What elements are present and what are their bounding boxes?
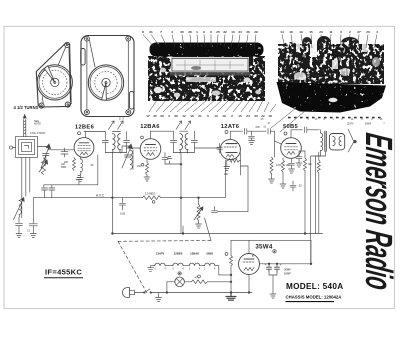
svg-text:9: 9 <box>203 30 205 34</box>
dial cord diagram 2 hub <box>102 78 110 86</box>
svg-text:150: 150 <box>137 165 142 168</box>
svg-text:35: 35 <box>153 114 157 118</box>
switch S1 <box>144 292 146 294</box>
B- bus <box>112 233 322 235</box>
svg-text:470K: 470K <box>276 164 282 167</box>
photo A mid clutter <box>170 72 250 76</box>
photo A bottom leader lines <box>149 100 276 112</box>
ground (V4 cathode) <box>280 184 286 188</box>
dial cord diagram 2 drum <box>88 65 123 100</box>
resistor R12 <box>192 280 208 284</box>
resistor (V4 grid) R8 <box>274 141 276 157</box>
IF transformer T1 <box>84 131 105 133</box>
svg-text:0.05: 0.05 <box>120 212 126 216</box>
tube V5 35W4 <box>239 254 260 275</box>
wire: osc coil to gang <box>122 146 130 153</box>
svg-text:IF=455KC: IF=455KC <box>45 267 82 276</box>
photo A bottom callout numbers <box>146 114 272 118</box>
photo A top callout numbers <box>142 30 258 34</box>
B+ output line <box>260 263 311 265</box>
ground (V2 cathode) <box>144 177 150 181</box>
svg-text:14: 14 <box>280 30 284 34</box>
svg-text:4: 4 <box>376 30 378 34</box>
photo A light band <box>171 57 249 73</box>
pilot lamp circuit <box>167 282 175 293</box>
svg-text:35W4: 35W4 <box>365 123 372 126</box>
resistor (feedback) R10 <box>304 151 306 158</box>
tube V2 12BA6 <box>140 139 161 160</box>
grid cap C2 <box>61 148 68 157</box>
svg-text:10: 10 <box>231 30 235 34</box>
chassis photo B (rear view) <box>277 36 387 113</box>
V1 cathode parts <box>80 157 82 159</box>
svg-text:15: 15 <box>309 30 313 34</box>
svg-text:50MF: 50MF <box>284 271 291 275</box>
photo A dial window <box>172 59 248 72</box>
svg-text:NOTE: NOTE <box>34 123 41 126</box>
svg-text:20: 20 <box>160 114 164 118</box>
wire: V4 plate to output <box>291 127 319 138</box>
cap .02 (output) <box>290 181 296 191</box>
chassis photo A (top view) <box>148 43 265 102</box>
photo A chassis highlights <box>154 87 162 93</box>
V3 grid cap <box>217 144 223 154</box>
screen supply box wires <box>44 155 98 187</box>
svg-text:25: 25 <box>216 30 220 34</box>
svg-text:26: 26 <box>246 30 250 34</box>
AVC bus <box>33 197 142 199</box>
svg-text:21: 21 <box>198 114 202 118</box>
svg-text:12BE6: 12BE6 <box>174 252 183 256</box>
ground (screen box) <box>76 176 82 185</box>
tube V3 12AT6 <box>220 139 240 159</box>
svg-text:2: 2 <box>349 30 351 34</box>
svg-text:31: 31 <box>149 30 153 34</box>
svg-text:12K: 12K <box>308 163 313 166</box>
svg-text:+: + <box>280 263 282 267</box>
T1 trimmer arrows <box>109 121 115 130</box>
svg-text:20: 20 <box>366 30 370 34</box>
ground (osc coil) <box>16 234 22 238</box>
tuning gang section 2 <box>122 146 132 169</box>
cap to ground at V3 plate <box>249 131 255 144</box>
AVC bypass cap C7 <box>120 198 126 210</box>
ground (V4 grid return) <box>269 179 275 183</box>
ground (left branch) <box>30 234 36 238</box>
svg-text:3: 3 <box>340 30 342 34</box>
left branch caps <box>29 198 37 234</box>
ground (volume pot) <box>196 224 202 228</box>
svg-text:12: 12 <box>182 114 186 118</box>
heater V2 <box>189 263 199 266</box>
dial cord diagram 1 corner pulleys <box>65 42 70 47</box>
svg-text:3: 3 <box>168 114 170 118</box>
svg-text:19: 19 <box>222 114 226 118</box>
svg-text:50B5: 50B5 <box>206 252 213 256</box>
wire: loop to tuning gang <box>38 147 74 150</box>
resistor (voice coil return) R13 <box>318 152 320 160</box>
svg-text:12AT6: 12AT6 <box>347 123 355 126</box>
svg-text:18: 18 <box>268 114 272 118</box>
resistor R5 (diode load) <box>228 159 240 163</box>
speaker SP1 <box>329 134 344 150</box>
svg-text:50B5: 50B5 <box>283 124 299 130</box>
wire: T1 bottom to AVC <box>111 153 113 198</box>
cap .02 near T3 <box>296 151 302 167</box>
ground (electrolytics) <box>270 294 276 298</box>
svg-text:+: + <box>265 263 267 267</box>
V2 cathode resistor R3 <box>146 160 148 163</box>
svg-text:12BE6: 12BE6 <box>75 125 95 131</box>
photo A dial escutcheon bar <box>150 43 264 57</box>
svg-text:250: 250 <box>224 173 229 176</box>
svg-text:6: 6 <box>210 30 212 34</box>
svg-text:22K: 22K <box>64 161 69 164</box>
dial cord diagram 1 drum notch <box>44 66 54 83</box>
heater labels <box>156 252 214 256</box>
dial cord diagram 1 hub <box>51 78 59 86</box>
B- bus bottom <box>151 292 252 294</box>
svg-text:30: 30 <box>180 30 184 34</box>
photo B chassis base (dark hull) <box>277 82 387 113</box>
svg-text:34: 34 <box>238 30 242 34</box>
svg-text:17: 17 <box>146 114 150 118</box>
svg-text:12AT6: 12AT6 <box>156 252 165 256</box>
svg-text:4: 4 <box>171 30 173 34</box>
dial cord diagram 1 outline <box>36 43 71 107</box>
svg-text:A.V.C: A.V.C <box>96 193 105 197</box>
svg-text:24: 24 <box>246 114 250 118</box>
svg-text:7: 7 <box>160 30 162 34</box>
B- terminal <box>226 293 236 301</box>
tuning gang section 1 (variable capacitor) <box>41 146 50 169</box>
dial cord diagram 1 cord <box>58 47 70 102</box>
photo B tube gaps <box>310 44 317 57</box>
dial cord diagram 2 corner pulleys <box>85 36 90 41</box>
resistor R11 (surge) <box>230 256 233 266</box>
oscillator coil L2 <box>129 146 131 150</box>
dial cord diagram 2 cord runs <box>87 40 128 111</box>
wire: speaker returns <box>316 151 326 233</box>
wire: V2 plate to T2 <box>151 131 174 139</box>
T2 trimmer arrows <box>176 121 182 130</box>
wire: box verticals <box>111 198 113 234</box>
svg-text:MMF: MMF <box>61 166 67 169</box>
heater pin numbers <box>154 268 216 270</box>
svg-text:30MF: 30MF <box>284 267 291 271</box>
svg-text:1: 1 <box>196 30 198 34</box>
heater V3 <box>151 265 155 267</box>
wire: heater to dropping resistor <box>215 266 231 275</box>
svg-text:3.3 MEG: 3.3 MEG <box>145 191 156 195</box>
svg-text:18: 18 <box>289 30 293 34</box>
svg-text:8: 8 <box>142 30 144 34</box>
ground (V1 cathode) <box>78 177 84 181</box>
dial cord diagram 1 drum <box>37 65 72 100</box>
B+ top line <box>231 239 311 241</box>
svg-text:COIL STRAP: COIL STRAP <box>30 131 46 135</box>
svg-text:5: 5 <box>207 114 209 118</box>
junction dots <box>182 233 184 235</box>
photo B top callout numbers <box>280 30 378 34</box>
photo B lower leader lines <box>271 108 305 132</box>
heater V1 <box>173 263 183 266</box>
svg-text:35W4: 35W4 <box>255 243 273 250</box>
IF transformer T2 <box>170 131 176 152</box>
antenna mast <box>24 120 26 137</box>
photo A top leader lines <box>143 35 256 50</box>
dial cord diagram 2 tension springs <box>81 49 85 66</box>
resistor R1 <box>73 158 76 171</box>
svg-text:5 5: 5 5 <box>119 117 124 121</box>
filament string ground <box>148 266 154 272</box>
svg-text:23: 23 <box>319 30 323 34</box>
dial cord diagram 2 outline <box>81 36 134 117</box>
AC plug <box>122 288 129 298</box>
svg-text:19: 19 <box>299 30 303 34</box>
svg-text:32: 32 <box>223 30 227 34</box>
svg-text:36: 36 <box>174 114 178 118</box>
wire: T2 to V3 grid <box>194 147 219 149</box>
tube V4 50B5 <box>281 138 302 159</box>
svg-text:13: 13 <box>214 114 218 118</box>
dial cord diagram 2 drum notch <box>102 83 107 101</box>
V4 cathode bypass C9 <box>289 159 295 174</box>
wire: AVC vertical <box>224 160 226 198</box>
output transformer T3 <box>320 130 322 133</box>
wire stub at 183 <box>182 226 184 234</box>
svg-text:12BA6: 12BA6 <box>140 124 160 130</box>
V4 cathode resistor R9 <box>282 158 284 160</box>
svg-text:11: 11 <box>329 30 333 34</box>
svg-text:12BA6: 12BA6 <box>190 252 199 256</box>
electrolytic C11 C12 <box>267 264 280 272</box>
svg-text:28: 28 <box>188 30 192 34</box>
photo B bottom tiny callouts <box>261 118 386 126</box>
coupling caps V3 plate <box>230 129 281 144</box>
wire: detector to output grid <box>218 166 249 212</box>
ground (line) <box>156 293 162 302</box>
svg-text:4 1/2 TURNS: 4 1/2 TURNS <box>14 105 39 110</box>
wire: T1 to V2 grid <box>127 147 140 149</box>
svg-text:MODEL: 540A: MODEL: 540A <box>286 282 343 291</box>
photo B top leader lines <box>282 35 377 51</box>
wire: V3 right side down <box>240 153 242 175</box>
ground (V3 diode) <box>224 160 230 170</box>
heater V4 <box>205 263 215 266</box>
svg-text:16: 16 <box>190 114 194 118</box>
svg-text:27: 27 <box>357 30 361 34</box>
svg-text:CHASSIS MODEL: 120042A: CHASSIS MODEL: 120042A <box>286 294 342 299</box>
wire: T2 bottom down <box>180 153 182 234</box>
svg-text:.005: .005 <box>255 126 260 129</box>
volume pot R6 <box>198 198 200 204</box>
svg-text:33: 33 <box>254 114 258 118</box>
svg-text:.02: .02 <box>298 184 302 188</box>
antenna terminal <box>9 146 12 149</box>
loop antenna L1 <box>16 137 38 158</box>
wires from loop bottom <box>22 158 30 200</box>
photo B bottom tick marks <box>288 117 381 119</box>
dashed linkage volume/switch <box>118 240 211 243</box>
oscillator padder coil L3 <box>19 200 22 201</box>
coupling cap to output <box>212 207 218 213</box>
svg-text:Emerson Radio: Emerson Radio <box>357 131 400 293</box>
capacitor C1 pair <box>42 185 55 198</box>
svg-text:29: 29 <box>254 30 258 34</box>
svg-text:150: 150 <box>286 164 291 167</box>
svg-text:15: 15 <box>238 114 242 118</box>
V2 screen bypass C4 <box>162 153 168 165</box>
tube V1 12BE6 <box>74 138 94 158</box>
svg-text:12AT6: 12AT6 <box>221 124 240 130</box>
svg-text:2: 2 <box>231 114 233 118</box>
resistor 3.3 MEG <box>143 196 162 200</box>
volume control R2 <box>42 158 46 175</box>
